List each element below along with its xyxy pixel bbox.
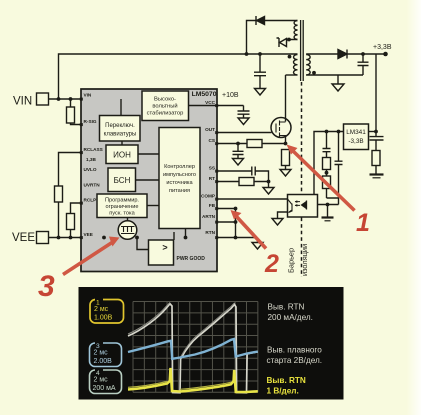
node VEE junction A — [57, 236, 61, 240]
wire opto cathode to common — [327, 205, 329, 218]
svg-text:1,3В: 1,3В — [86, 157, 97, 162]
wire CS — [217, 143, 286, 145]
svg-text:старта 2В/дел.: старта 2В/дел. — [267, 356, 323, 365]
wire secondary top — [306, 53, 338, 55]
ground RTN — [252, 243, 263, 250]
transformer T1 bias winding — [294, 21, 297, 40]
wire output node — [347, 53, 386, 55]
svg-text:VCC: VCC — [205, 100, 216, 105]
capacitor feedback A — [323, 132, 331, 158]
svg-text:2 мс: 2 мс — [94, 306, 109, 313]
wire SS — [217, 171, 269, 182]
node source junction — [284, 142, 288, 146]
wire BSN to controller — [136, 179, 160, 181]
capacitor output — [358, 54, 369, 75]
node RTN tie junction — [234, 236, 238, 240]
capacitor LM341 output — [370, 137, 384, 140]
wire ARTN — [217, 221, 236, 223]
wire red callout arrow 3 — [63, 243, 112, 275]
node input cap junction — [258, 52, 262, 56]
ground VCC — [238, 118, 249, 125]
wire inrush block to controller — [147, 205, 159, 207]
wire clamp loop — [247, 21, 298, 55]
svg-text:RTN: RTN — [205, 230, 215, 235]
svg-text:2 мс: 2 мс — [94, 350, 109, 357]
svg-text:R-SIG: R-SIG — [84, 119, 97, 124]
wire drain to transformer — [285, 75, 287, 122]
wire LM341 output to cap — [369, 131, 377, 133]
svg-text:SS: SS — [209, 166, 215, 171]
wire LM341 input to opto anode — [314, 132, 344, 195]
right edge fade — [406, 0, 421, 415]
wire ION to controller — [138, 153, 159, 155]
wire red callout arrow 1 — [293, 151, 355, 211]
svg-text:ARTN: ARTN — [202, 214, 216, 219]
svg-text:Выв. RTN: Выв. RTN — [267, 376, 306, 385]
block high-voltage stabilizer — [142, 91, 189, 121]
node VIN-rsig junction — [69, 97, 73, 101]
transistor Q1 switching MOSFET — [271, 118, 291, 138]
scope graticule — [133, 302, 258, 393]
diode clamp — [256, 16, 265, 25]
wire return ground stub — [337, 75, 339, 84]
wire opto emitter — [278, 212, 288, 219]
node feedback A mid junction — [325, 171, 329, 175]
diode output rectifier — [338, 50, 347, 59]
svg-text:2.00В: 2.00В — [94, 358, 113, 365]
channel box 4 — [90, 368, 122, 394]
wire divider bottom — [318, 198, 339, 205]
node ARTN junction — [234, 220, 238, 224]
svg-text:Барьер: Барьер — [287, 248, 296, 273]
svg-text:PWR GOOD: PWR GOOD — [177, 256, 206, 262]
scope trace yellow RTN — [128, 368, 258, 392]
block SMPS controller — [159, 128, 200, 229]
block switch — [100, 116, 141, 142]
svg-text:RT: RT — [209, 176, 215, 181]
node output terminal — [383, 52, 388, 57]
channel box 3 — [90, 341, 122, 367]
svg-text:+3,3В: +3,3В — [373, 44, 392, 51]
svg-text:пуск. тока: пуск. тока — [109, 210, 135, 216]
node LM341 output junction — [374, 130, 378, 134]
resistor RT — [239, 178, 254, 186]
svg-text:CS: CS — [208, 138, 215, 143]
capacitor VCC bypass — [238, 111, 250, 118]
svg-text:2: 2 — [264, 250, 279, 278]
node divider junction B — [337, 130, 341, 134]
wire bias winding lead — [287, 40, 298, 43]
node divider junction A — [325, 130, 329, 134]
svg-text:RCLASS: RCLASS — [84, 147, 103, 152]
wire RCLASS — [59, 153, 82, 238]
svg-text:клавиатуры: клавиатуры — [104, 132, 137, 138]
ground opto emitter — [272, 219, 283, 226]
svg-text:вольтный: вольтный — [152, 103, 177, 110]
wire RTN out — [217, 238, 258, 243]
transformer T1 core — [301, 20, 304, 81]
wire top rail to transformer primary — [59, 54, 298, 99]
node VEE junction B — [69, 236, 73, 240]
svg-text:Выв. RTN: Выв. RTN — [268, 303, 305, 312]
terminal VIN — [13, 93, 49, 108]
svg-text:200 мА/дел.: 200 мА/дел. — [268, 313, 313, 322]
op-amp U3 LM341 regulator — [344, 124, 369, 150]
ground secondary common rail 2 — [325, 220, 331, 222]
svg-text:>: > — [162, 243, 167, 253]
transistor Q2 internal current-limit FET — [118, 221, 137, 240]
svg-text:БСН: БСН — [114, 176, 131, 185]
block ION reference — [106, 145, 138, 164]
node RTN junction left — [102, 236, 106, 240]
capacitor SS softstart — [252, 167, 255, 176]
diode zener bias arrow — [277, 38, 287, 47]
wire OUT to gate — [217, 132, 272, 134]
ground input bulk — [255, 89, 266, 96]
svg-text:LM5070: LM5070 — [192, 91, 217, 98]
svg-text:импульсного: импульсного — [163, 172, 196, 178]
wire FB — [217, 208, 236, 210]
wire red callout arrow 2 — [236, 216, 266, 249]
block BSN — [108, 168, 136, 192]
resistor RCLP — [67, 214, 75, 230]
node secondary polarity dot — [312, 71, 316, 75]
terminal VEE — [12, 232, 49, 245]
resistor LM341 load — [372, 151, 380, 175]
ground secondary common rail — [322, 216, 334, 218]
node FET drain on VEE line — [135, 236, 139, 240]
capacitor feedback B — [335, 161, 343, 164]
svg-text:UVRTN: UVRTN — [84, 183, 101, 188]
resistor CS filter — [247, 140, 262, 148]
wire switch to ION — [121, 141, 123, 145]
node CS junction — [236, 142, 240, 146]
wire VIN to keyboard switch block — [120, 99, 122, 116]
svg-text:VIN: VIN — [84, 93, 92, 98]
svg-text:LM341: LM341 — [346, 129, 366, 136]
wire FET to PWR GOOD comparator — [137, 238, 149, 250]
ground secondary return — [332, 84, 344, 91]
svg-text:Высоко-: Высоко- — [154, 97, 176, 103]
wire RT — [217, 181, 269, 183]
block PWR GOOD comparator — [149, 240, 174, 265]
wire RCLP — [71, 203, 82, 238]
wire FB-ARTN-RTN tie — [235, 209, 237, 238]
node primary polarity dot — [288, 55, 292, 59]
svg-text:+10В: +10В — [222, 92, 239, 99]
wire +3,3V feedback branch — [375, 54, 377, 151]
block programmable inrush current limit — [97, 194, 147, 218]
svg-text:Программир.: Программир. — [105, 197, 139, 203]
svg-text:OUT: OUT — [205, 127, 215, 132]
capacitor CS filter — [233, 144, 244, 159]
svg-text:питания: питания — [169, 188, 190, 194]
node output cap junction — [361, 52, 365, 56]
ground current sense — [280, 170, 291, 177]
svg-text:RCLP: RCLP — [84, 197, 97, 202]
wire VCC — [217, 106, 244, 111]
ground LM341 load rail — [370, 173, 384, 175]
channel box 1 — [90, 298, 124, 324]
svg-text:Переключ.: Переключ. — [105, 123, 135, 129]
resistor feedback A1 — [323, 158, 331, 170]
wire feedback A mid — [326, 170, 328, 177]
node SS-RT junction — [267, 180, 271, 184]
node FB junction — [234, 207, 238, 211]
scope trace blue softstart — [128, 339, 258, 359]
wire controller to RTN line — [185, 229, 187, 238]
svg-text:-3,3В: -3,3В — [348, 138, 363, 145]
scope panel — [79, 287, 344, 400]
resistor R-SIG — [67, 99, 82, 125]
ground LM341 load rail 2 — [373, 177, 381, 179]
svg-text:FB: FB — [209, 203, 216, 208]
wire comparator to controller — [173, 232, 175, 240]
wire primary bottom to drain — [286, 74, 298, 76]
scope trace white fuzz — [128, 302, 235, 357]
ground CS filter — [233, 159, 244, 166]
transformer T1 secondary winding — [306, 55, 310, 75]
svg-text:VIN: VIN — [13, 96, 32, 108]
op-amp U2 optocoupler — [288, 195, 318, 218]
capacitor input bulk — [254, 54, 266, 89]
svg-text:VEE: VEE — [84, 232, 93, 237]
svg-text:источника: источника — [166, 180, 193, 186]
svg-text:Контроллер: Контроллер — [164, 164, 195, 170]
svg-text:2 мс: 2 мс — [94, 377, 109, 384]
node VIN internal junction — [119, 97, 123, 101]
node bias polarity dot — [287, 38, 291, 42]
ground RT — [263, 188, 274, 195]
wire inrush block to internal FET — [127, 218, 129, 222]
resistor current sense — [282, 150, 290, 170]
svg-text:Выв. плавного: Выв. плавного — [267, 346, 322, 355]
node controller RTN junction — [184, 236, 188, 240]
svg-text:VEE: VEE — [12, 232, 35, 244]
svg-text:1: 1 — [356, 209, 370, 237]
svg-text:3: 3 — [38, 270, 55, 303]
svg-text:COMP: COMP — [201, 194, 215, 199]
svg-text:изоляции: изоляции — [300, 244, 309, 276]
svg-text:ИОН: ИОН — [113, 151, 131, 160]
resistor RCLASS — [55, 186, 63, 202]
svg-text:ограничение: ограничение — [106, 204, 139, 210]
node VIN-rail junction — [57, 97, 61, 101]
wire RT to ground — [268, 182, 270, 188]
wire feedback B — [338, 132, 340, 199]
wire VIN input — [49, 98, 143, 100]
scope trace yellow fuzz — [128, 382, 231, 390]
scope trace white sawtooth — [128, 304, 258, 393]
node opto cathode junction — [326, 203, 330, 207]
wire source to CS node — [285, 135, 287, 144]
svg-text:1 В/дел.: 1 В/дел. — [267, 387, 299, 396]
svg-text:UVLO: UVLO — [84, 167, 97, 172]
wire isolation barrier dashed — [301, 82, 303, 277]
svg-text:200 мА: 200 мА — [93, 385, 116, 392]
svg-text:1.00В: 1.00В — [94, 315, 113, 322]
transformer T1 primary winding — [294, 55, 298, 75]
node clamp junction — [245, 52, 249, 56]
wire VEE line — [49, 237, 218, 239]
svg-text:стабилизатор: стабилизатор — [147, 111, 184, 117]
op-amp U1 LM5070 body — [81, 89, 217, 272]
wire COMP to optocoupler — [217, 198, 288, 200]
wire stabilizer to VCC pin — [189, 105, 218, 107]
wire secondary return — [306, 74, 363, 76]
resistor feedback A2 — [323, 176, 331, 198]
